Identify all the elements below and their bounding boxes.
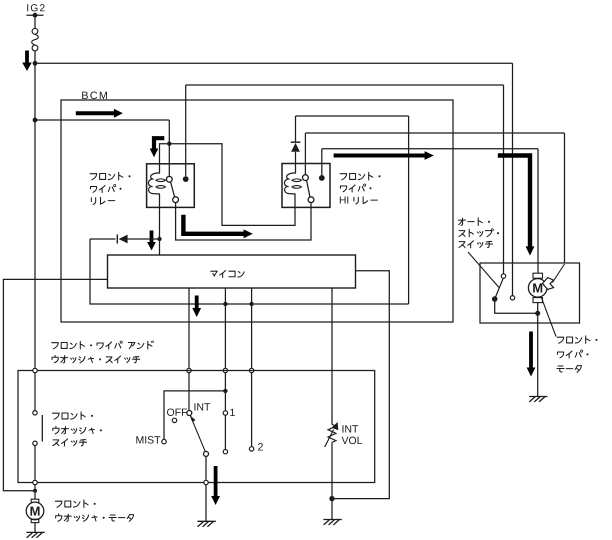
- node junction motor ground: [537, 303, 539, 312]
- wire maikon lead INT: [188, 288, 190, 368]
- node junction pos2 y304: [249, 302, 253, 306]
- label auto stop switch: [458, 219, 465, 221]
- diode D2: [295, 116, 297, 142]
- relay L1 common contact: [168, 144, 170, 177]
- contact OFF: [172, 418, 176, 422]
- relay L2 switch arm: [307, 180, 310, 196]
- label maikon: [211, 271, 217, 275]
- relay HI coil L2: [284, 173, 295, 194]
- node junction INT VOL ground: [329, 496, 334, 501]
- relay L1 switch arm: [171, 182, 175, 197]
- motor front washer motor: [34, 493, 36, 499]
- wire relay1 output to HI relay arm: [176, 203, 311, 240]
- motor cam contact: [543, 278, 554, 290]
- node junction MIST/pos1: [223, 389, 227, 393]
- wire y85 relay1-NO to auto-stop: [186, 84, 504, 86]
- label BCM: [82, 92, 88, 99]
- node junction washer motor: [34, 485, 36, 489]
- label front washer switch: [52, 413, 59, 419]
- label front wiper HI relay: [340, 174, 347, 180]
- wire INT VOL to ground: [331, 443, 333, 496]
- wire arm to motor-ground net: [495, 299, 536, 313]
- fuse F (circuit breaker IG2): [34, 15, 36, 28]
- arrow microcomputer drive down: [150, 231, 154, 244]
- wire maikon lead pos1: [224, 288, 226, 368]
- switch auto-stop arm: [495, 279, 503, 299]
- ground washer motor: [26, 531, 44, 533]
- wire y148.7 HI-NO to motor: [322, 148, 538, 150]
- contact MIST: [162, 439, 166, 443]
- wire y120 to wiper relay: [35, 119, 169, 121]
- node junction pos1 y304: [223, 302, 227, 306]
- label front wiper motor: [557, 337, 564, 343]
- relay L2 NO contact: [319, 175, 325, 181]
- switch wiper arm: [190, 416, 205, 452]
- ground wiper switch: [197, 520, 215, 522]
- pointer wiper motor label: [541, 297, 556, 337]
- ground wiper motor: [529, 396, 547, 398]
- arrow motor ground flow: [529, 332, 533, 369]
- arrow LO-speed flow: [334, 154, 426, 158]
- wire y133 to motor cam: [305, 132, 564, 134]
- wire maikon right to INT VOL bottom: [334, 271, 389, 499]
- arrow HI-speed flow to motor: [498, 156, 530, 247]
- relay front-wiper-relay box: [147, 164, 195, 208]
- node junction IG2/y63: [33, 61, 38, 66]
- ground INT VOL: [323, 519, 341, 521]
- arrow feed-down at IG2: [25, 51, 29, 64]
- label front wiper relay: [90, 174, 97, 180]
- contact pos2: [249, 447, 253, 451]
- wire junction to HI relay coil-: [169, 144, 295, 226]
- wire maikon lead pos2: [251, 288, 253, 368]
- terminal IG2 at switch box: [33, 368, 37, 372]
- wire arm to ground: [205, 456, 207, 480]
- node IG2 label: [26, 4, 29, 11]
- node junction coil-/microcomputer: [157, 237, 161, 241]
- wire motor to ground: [537, 315, 539, 396]
- label front wiper and washer switch: [52, 343, 59, 349]
- label front washer motor: [55, 501, 62, 507]
- arrow into wiper relay: [154, 138, 164, 149]
- box front wiper and washer switch: [18, 371, 375, 483]
- switch washer contacts: [34, 373, 36, 411]
- wire y63 to auto-stop switch: [35, 62, 513, 64]
- box auto-stop switch: [480, 263, 580, 323]
- wire IG2 main vertical x35: [34, 51, 36, 368]
- relay L1 NO contact: [183, 176, 189, 182]
- relay front-wiper-HI-relay box: [282, 164, 330, 208]
- box microcomputer (maikon): [108, 255, 356, 288]
- contact pos1: [224, 391, 226, 411]
- contact INT pivot: [187, 411, 192, 416]
- node junction relay coil feed: [167, 142, 171, 146]
- motor front wiper motor: [533, 273, 543, 278]
- resistor INT VOL (variable): [328, 424, 336, 443]
- wire coil-top corner: [160, 144, 170, 173]
- arrow BCM input flow: [76, 111, 115, 115]
- wire maikon left to washer motor net: [3, 279, 107, 490]
- arrow relay1 output flow: [183, 215, 244, 234]
- wire maikon lead INT VOL: [331, 288, 333, 424]
- relay L2 common contact: [304, 133, 306, 175]
- wire diode net to HI coil top: [90, 239, 409, 304]
- wire MIST link: [164, 391, 225, 439]
- contact auto-stop park: [501, 274, 505, 278]
- diode D1: [90, 238, 116, 240]
- arrow switch ground flow: [214, 466, 218, 497]
- contact auto-stop run: [510, 296, 514, 300]
- pointer auto-stop label: [468, 252, 499, 288]
- box BCM: [61, 100, 453, 322]
- node junction IG2/y120: [33, 118, 38, 123]
- node IG2 terminal: [27, 14, 44, 16]
- relay L1 coil bottom lead: [159, 194, 161, 255]
- relay coil L1: [148, 173, 159, 194]
- arrow INT drive down: [195, 296, 199, 310]
